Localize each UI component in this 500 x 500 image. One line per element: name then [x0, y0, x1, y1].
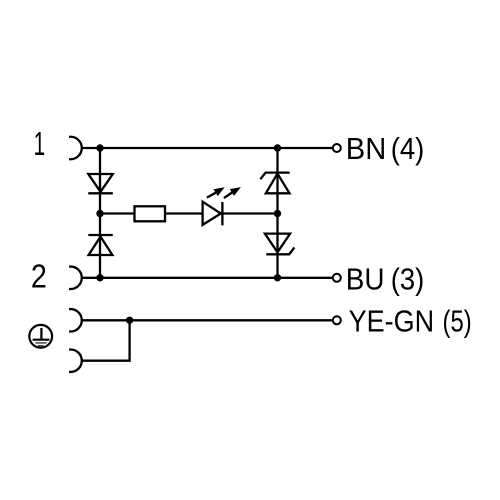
svg-text:(5): (5)	[443, 304, 472, 339]
svg-text:2: 2	[31, 257, 47, 294]
svg-text:BN: BN	[346, 131, 387, 166]
svg-text:(4): (4)	[391, 131, 425, 166]
svg-text:(3): (3)	[391, 262, 425, 297]
svg-text:BU: BU	[346, 262, 385, 297]
svg-text:1: 1	[34, 125, 46, 162]
svg-text:YE-GN: YE-GN	[349, 304, 435, 339]
